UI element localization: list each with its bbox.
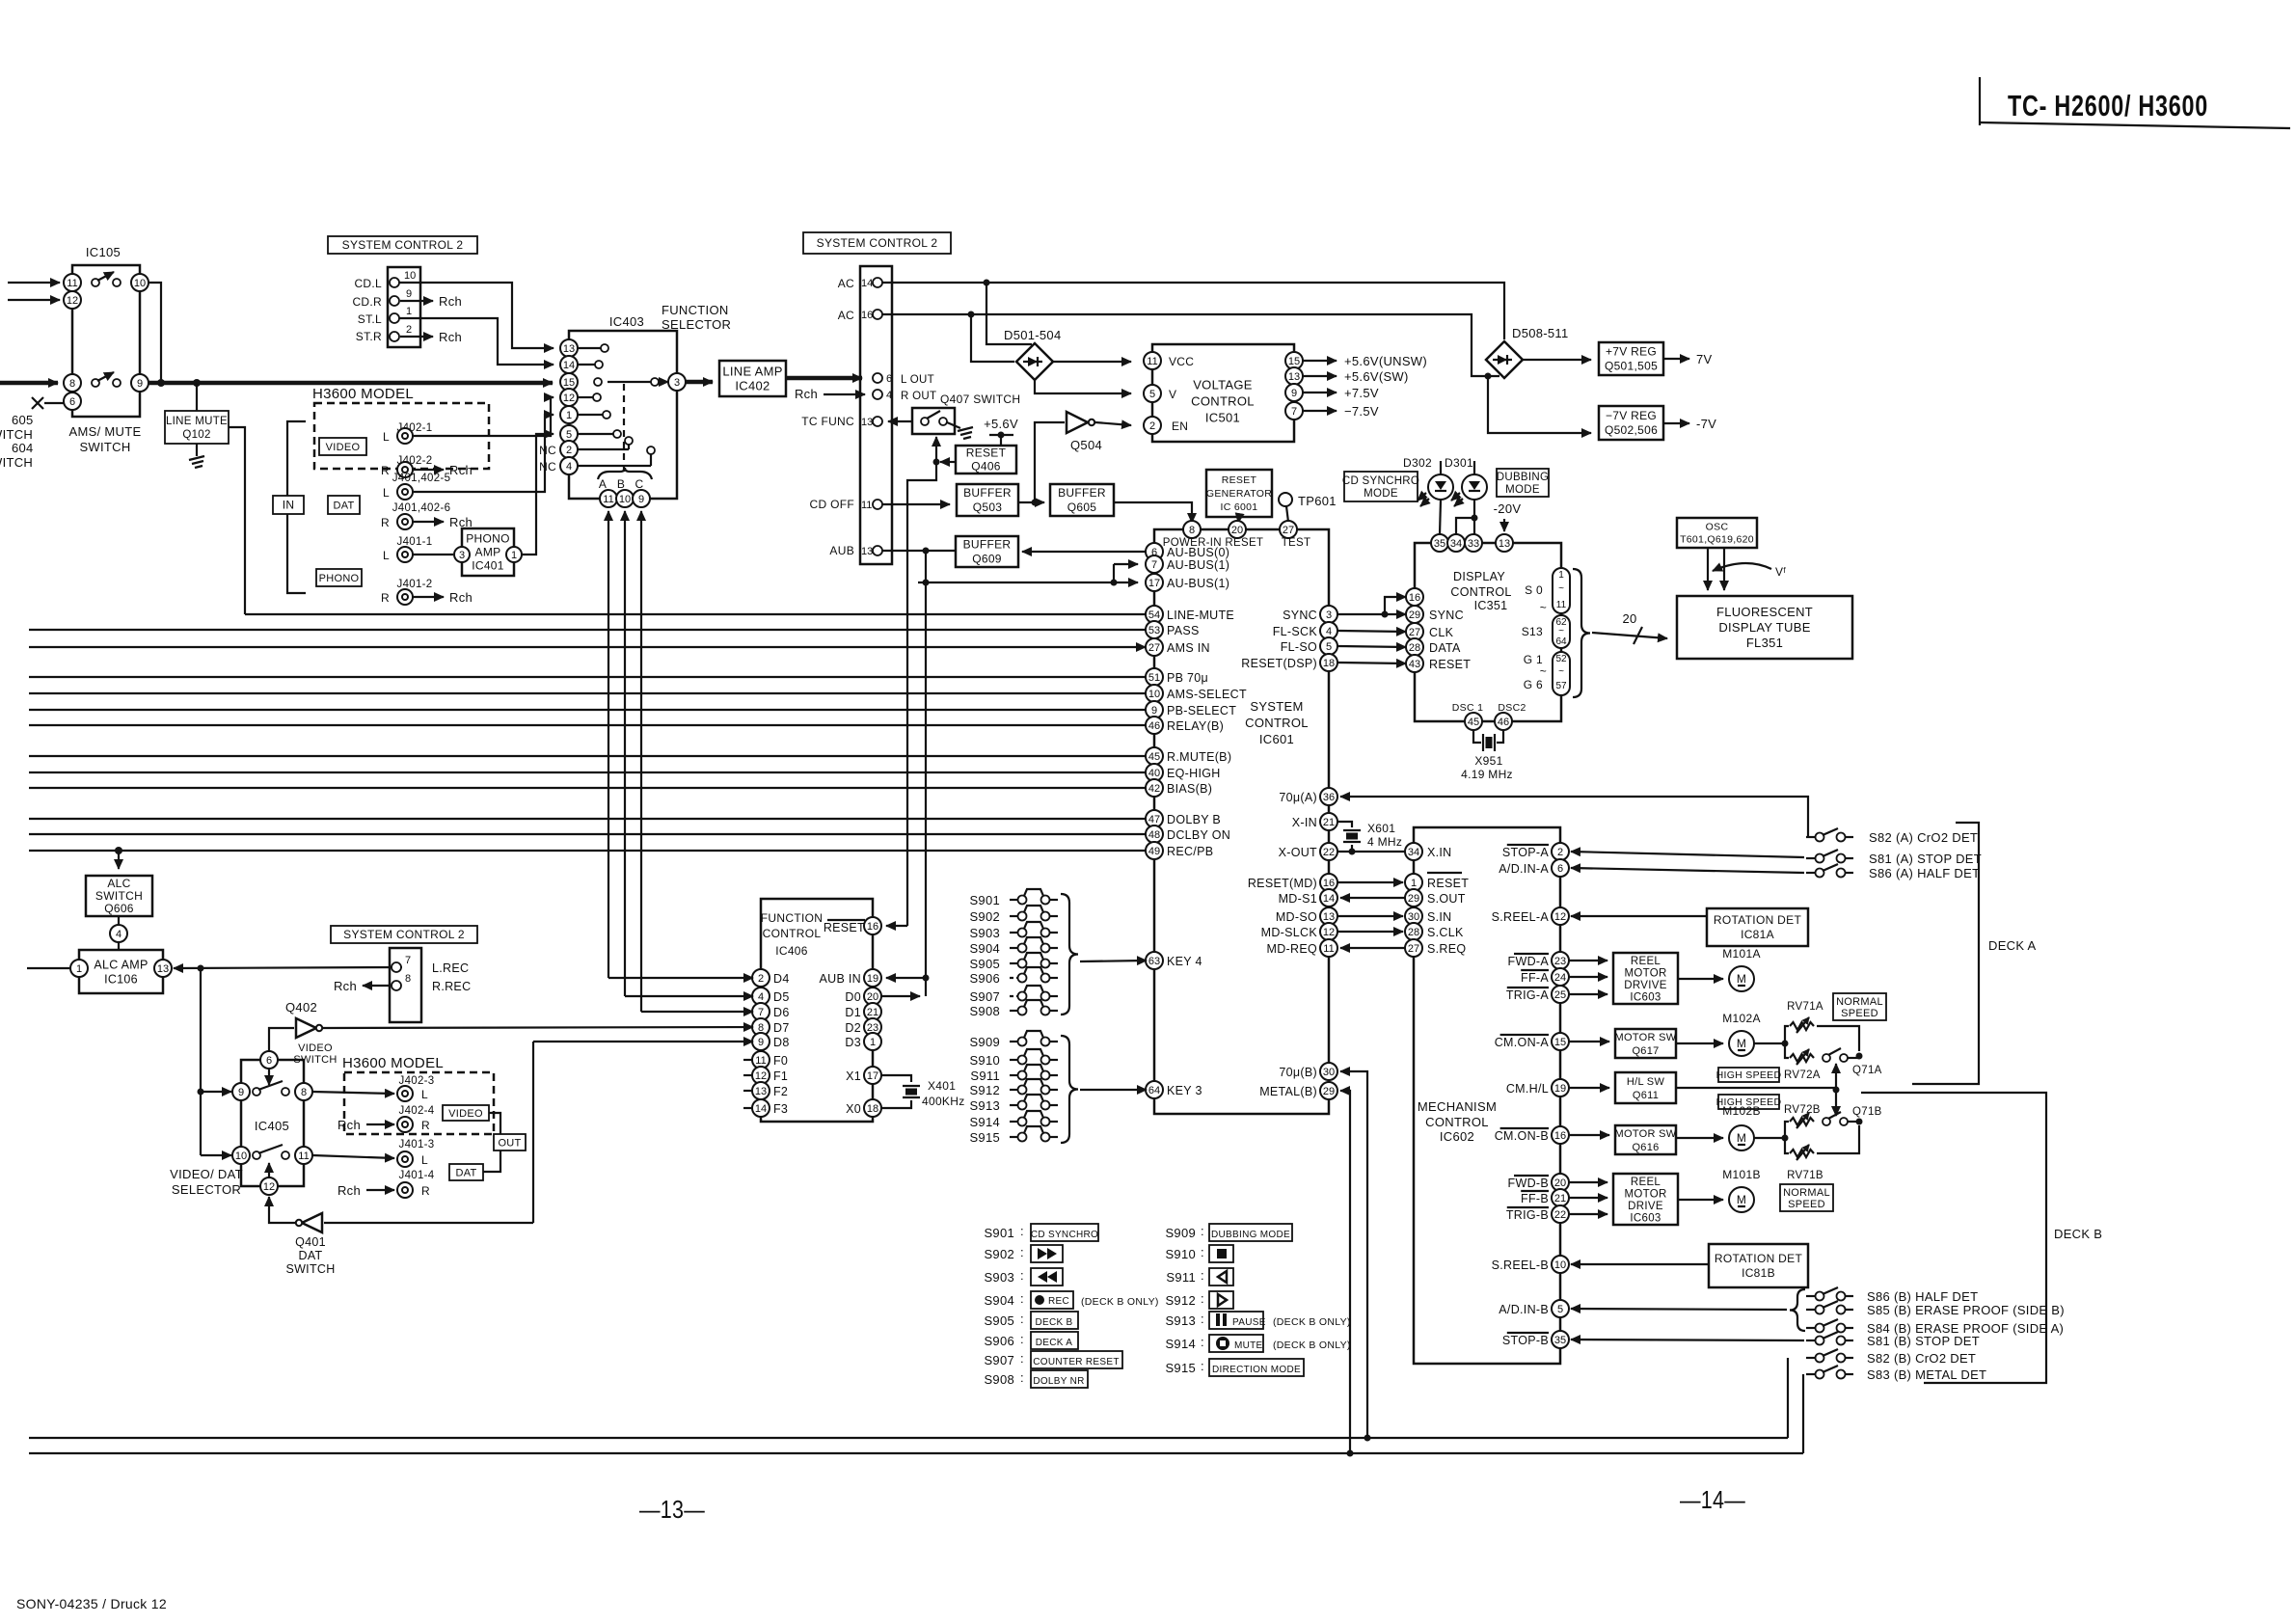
svg-text:VIDEO/ DAT: VIDEO/ DAT [170, 1167, 243, 1181]
wire SYNC branch to 16 [1385, 597, 1406, 614]
svg-text:NC: NC [539, 460, 556, 474]
IC601 pin 42 BIAS(B) [1146, 779, 1212, 797]
svg-text:FL-SO: FL-SO [1281, 640, 1317, 654]
svg-text:Q617: Q617 [1632, 1045, 1659, 1057]
svg-text:35: 35 [1434, 538, 1445, 550]
wire KEY4 [1080, 961, 1147, 961]
wire STOP-A from S81A [1571, 852, 1804, 857]
svg-text:X401: X401 [928, 1079, 956, 1093]
svg-text:1: 1 [76, 963, 82, 975]
svg-text:29: 29 [1408, 893, 1419, 905]
svg-text:S904: S904 [969, 941, 1000, 956]
svg-text:MODE: MODE [1364, 488, 1398, 500]
switch S83(B) [1806, 1366, 1986, 1382]
svg-text::: : [1201, 1224, 1204, 1238]
svg-text:IN: IN [283, 499, 295, 512]
IC403 pin 9 [633, 490, 650, 507]
svg-text:PB 70μ: PB 70μ [1167, 671, 1208, 685]
wire J401,402-5 to IC403 pin 1 [413, 415, 554, 492]
connector pin 11 CD OFF [810, 498, 882, 511]
svg-text:1: 1 [1411, 878, 1417, 889]
svg-text:S.REQ: S.REQ [1427, 942, 1466, 956]
svg-text:S905: S905 [984, 1313, 1014, 1328]
wire S83B drop [1802, 1374, 1804, 1453]
svg-text:M102B: M102B [1722, 1104, 1761, 1118]
svg-text:L OUT: L OUT [901, 374, 934, 386]
svg-text:-7V: -7V [1696, 417, 1716, 431]
wire IC6001 to pin 20 [1238, 517, 1239, 523]
legend S911 [1166, 1268, 1233, 1286]
svg-text:70μ(B): 70μ(B) [1279, 1066, 1317, 1079]
svg-text:27: 27 [1409, 627, 1420, 638]
svg-text:REC: REC [1048, 1296, 1069, 1307]
svg-text:9: 9 [1291, 388, 1297, 399]
svg-text:CD.L: CD.L [354, 277, 382, 290]
wire CD.L to IC403 pin 13 [399, 283, 554, 348]
svg-text:16: 16 [861, 310, 873, 321]
svg-text:D508-511: D508-511 [1512, 326, 1569, 340]
svg-text:EQ-HIGH: EQ-HIGH [1167, 767, 1221, 780]
svg-text:D4: D4 [773, 972, 790, 986]
IC406 pin 20 D0 [845, 988, 881, 1005]
wire S82B drop [1787, 1358, 1789, 1438]
IC403 pin 14 [560, 356, 603, 373]
svg-text::: : [1020, 1312, 1024, 1326]
svg-text:Rch: Rch [334, 979, 357, 993]
wire into IC105 pin 11 [8, 282, 60, 284]
svg-text:11: 11 [1556, 600, 1567, 610]
wire CM.H/L [1569, 1087, 1609, 1089]
label AMS/MUTE SWITCH [69, 424, 142, 454]
switch Q71B [1823, 1106, 1882, 1125]
svg-text:FL351: FL351 [1746, 636, 1783, 650]
svg-text:AUB: AUB [829, 544, 854, 557]
svg-text:DIRECTION MODE: DIRECTION MODE [1212, 1365, 1301, 1375]
wire ALC pin13 to connector [174, 965, 402, 972]
wire J402-1 to IC403 pin 12 [413, 397, 554, 436]
svg-text:Q501,505: Q501,505 [1605, 360, 1658, 373]
switch S901 [969, 889, 1058, 907]
svg-text:HIGH SPEED: HIGH SPEED [1716, 1069, 1782, 1081]
svg-text:11: 11 [861, 500, 872, 511]
legend S909 [1165, 1224, 1292, 1241]
svg-text:T601,Q619,620: T601,Q619,620 [1680, 534, 1754, 546]
switch S908 [969, 1000, 1058, 1018]
svg-text:1: 1 [406, 306, 412, 317]
IC601 pin 4 FL-SCK [1273, 622, 1337, 639]
IC601 pin 8 POWER-IN [1183, 521, 1201, 538]
svg-text:4: 4 [116, 929, 122, 940]
IC601 pin 9 PB-SELECT [1146, 701, 1236, 718]
svg-text:CM.ON-B: CM.ON-B [1495, 1129, 1549, 1143]
wire MD-REQ from S.REQ [1340, 947, 1405, 949]
svg-text:11: 11 [67, 278, 77, 289]
svg-text:~: ~ [1558, 666, 1564, 677]
svg-text:9: 9 [758, 1037, 764, 1048]
svg-text:VIDEO: VIDEO [448, 1108, 483, 1120]
svg-text:20: 20 [1231, 525, 1243, 536]
svg-text:Vᶠ: Vᶠ [1775, 565, 1786, 579]
svg-text:17: 17 [867, 1070, 878, 1082]
wire thick audio bus to IC403 pin 15 [149, 379, 553, 387]
crystal X401 [881, 1075, 965, 1108]
IC406 pin 13 F2 [752, 1082, 788, 1099]
svg-text:FF-A: FF-A [1521, 971, 1549, 985]
IC406 pin 8 D7 [752, 1018, 790, 1036]
legend S915 [1165, 1359, 1304, 1376]
svg-text:34: 34 [1450, 538, 1462, 550]
svg-text:S.OUT: S.OUT [1427, 892, 1466, 906]
svg-text:604: 604 [12, 441, 34, 455]
svg-text:45: 45 [1148, 751, 1160, 763]
svg-text:64: 64 [1555, 636, 1567, 647]
svg-text:48: 48 [1148, 829, 1160, 841]
switch S84(B) [1806, 1319, 2064, 1336]
svg-text:M101B: M101B [1722, 1168, 1761, 1181]
wire D508 out to +7V REG [1523, 359, 1591, 361]
connector CN system control 2 left [352, 267, 420, 347]
legend S912 [1165, 1291, 1233, 1309]
wire -7.5V [1303, 404, 1379, 419]
svg-text:SYNC: SYNC [1429, 609, 1464, 622]
jack J401,402-6 [381, 502, 450, 529]
IC403 pin 5 [560, 425, 621, 443]
wire CM.ON-B [1569, 1134, 1609, 1136]
motor switch Q616 [1615, 1125, 1677, 1154]
svg-text:DAT: DAT [333, 500, 354, 511]
svg-text:ROTATION DET: ROTATION DET [1714, 913, 1802, 927]
svg-text:S86 (B) HALF DET: S86 (B) HALF DET [1867, 1289, 1978, 1304]
svg-text:M102A: M102A [1722, 1012, 1761, 1025]
IC351 pin 43 RESET [1406, 655, 1471, 672]
wire 20-line bus to FL351 [1592, 611, 1667, 644]
svg-text:-20V: -20V [1494, 501, 1522, 516]
svg-text:SWITCH: SWITCH [285, 1262, 335, 1276]
legend S907 [984, 1351, 1122, 1368]
svg-text:16: 16 [1323, 878, 1335, 889]
IC601 pin 6 AU-BUS(0) [1146, 543, 1229, 560]
svg-text::: : [1020, 1332, 1024, 1346]
svg-text:8: 8 [405, 973, 411, 985]
svg-text:F3: F3 [773, 1102, 788, 1116]
svg-text:30: 30 [1323, 1067, 1335, 1078]
svg-text:BUFFER: BUFFER [963, 486, 1012, 500]
wire bus line 11 y849 [29, 818, 1146, 820]
IC351 stadium pins 52-57 [1553, 652, 1570, 695]
wire RESET 18-43 [1337, 663, 1406, 663]
jack J401-4 [397, 1170, 435, 1198]
svg-text:SYSTEM: SYSTEM [1250, 699, 1303, 714]
svg-text:10: 10 [404, 270, 416, 282]
svg-text:~: ~ [1540, 601, 1547, 614]
IC601 pin 3 SYNC [1283, 606, 1337, 623]
supply -20V [1494, 501, 1522, 531]
svg-text:9: 9 [638, 494, 644, 505]
svg-text:13: 13 [1323, 911, 1335, 923]
switch S910 [969, 1049, 1058, 1068]
h/l switch Q611 [1615, 1072, 1676, 1103]
IC403 box [569, 331, 677, 499]
wire AC16 drop to D501 [971, 314, 1014, 362]
svg-text:DRIVE: DRIVE [1628, 1201, 1663, 1212]
wire C line [641, 511, 753, 1012]
wire 7V out [1663, 352, 1713, 366]
wire Q406 to Q407 [933, 437, 957, 466]
svg-text:MOTOR SW: MOTOR SW [1615, 1128, 1677, 1140]
svg-text:DSC 1: DSC 1 [1452, 702, 1483, 714]
IC602 pin 25 TRIG-A [1506, 986, 1569, 1003]
svg-text:43: 43 [1409, 659, 1420, 670]
svg-text:D1: D1 [845, 1006, 861, 1019]
svg-text:TEST: TEST [1282, 537, 1311, 549]
svg-text:RESET: RESET [824, 921, 865, 934]
voltage control IC501 [1144, 344, 1303, 442]
dashed box H3600 out jacks [344, 1072, 494, 1134]
svg-text:STOP-A: STOP-A [1502, 846, 1549, 859]
svg-text:12: 12 [1554, 911, 1566, 923]
svg-text:S13: S13 [1522, 625, 1543, 638]
svg-text:13: 13 [1288, 371, 1300, 383]
IC406 pin 21 D1 [845, 1003, 881, 1020]
IC403 pin 11 [600, 490, 617, 507]
svg-text:DAT: DAT [299, 1249, 323, 1262]
svg-text:D501-504: D501-504 [1004, 328, 1062, 342]
svg-text:4: 4 [1326, 626, 1332, 637]
svg-text:19: 19 [867, 973, 878, 985]
IC351 pin 27 CLK [1406, 623, 1454, 640]
svg-text:S909: S909 [969, 1035, 1000, 1049]
wire Rch to R OUT [795, 387, 865, 401]
IC601 pin 5 FL-SO [1281, 637, 1337, 655]
svg-text:7: 7 [1151, 559, 1157, 571]
wire bottom bus 1 [29, 1435, 1788, 1442]
svg-text:6: 6 [886, 373, 892, 385]
svg-text:15: 15 [1288, 356, 1300, 367]
svg-text:DISPLAY: DISPLAY [1453, 570, 1505, 583]
label DAT box (out) [449, 1164, 483, 1180]
svg-text:R: R [381, 464, 390, 477]
IC351 pin 34 [1447, 534, 1465, 552]
svg-text::: : [1020, 1370, 1024, 1385]
IC601 pin 14 MD-S1 [1279, 889, 1337, 907]
svg-text:20: 20 [1554, 1177, 1566, 1189]
svg-text:20: 20 [1622, 611, 1636, 626]
svg-text:L.REC: L.REC [432, 961, 469, 975]
svg-text:PHONO: PHONO [466, 532, 510, 546]
svg-text:SPEED: SPEED [1788, 1199, 1825, 1210]
wire Q503 to Q605 [1018, 500, 1044, 506]
svg-text:S907: S907 [984, 1353, 1014, 1367]
svg-text:S911: S911 [1166, 1270, 1196, 1285]
IC602 pin 28 S.CLK [1405, 923, 1464, 940]
label 604 switch [0, 441, 34, 470]
svg-text:12: 12 [1323, 927, 1335, 938]
legend S902 [984, 1245, 1063, 1262]
svg-text:S909: S909 [1165, 1226, 1196, 1240]
svg-text:R: R [421, 1119, 430, 1132]
svg-text:R: R [381, 591, 390, 605]
svg-text:R: R [421, 1184, 430, 1198]
svg-text:13: 13 [861, 417, 873, 428]
wire FF-B [1569, 1197, 1607, 1199]
svg-text:AU-BUS(0): AU-BUS(0) [1167, 546, 1229, 559]
brace KEY3 switches [1061, 1036, 1078, 1143]
wire Q611 out [1676, 1087, 1836, 1089]
svg-text:CD SYNCHRO: CD SYNCHRO [1342, 475, 1419, 487]
IC351 pin 35 [1431, 534, 1448, 552]
wire D8 from selector [324, 1042, 753, 1223]
IC601 pin 64 KEY 3 [1146, 1081, 1202, 1098]
svg-text:SYSTEM CONTROL 2: SYSTEM CONTROL 2 [817, 236, 938, 250]
switch S81(A) [1806, 850, 1982, 866]
wire into ALC pin1 [27, 967, 69, 969]
svg-text:X951: X951 [1474, 754, 1502, 768]
switch S82(B) [1806, 1349, 1976, 1366]
svg-text:M: M [1737, 1193, 1746, 1206]
IC601 pin 47 DOLBY B [1146, 810, 1221, 827]
svg-text:16: 16 [1554, 1130, 1566, 1142]
svg-text:40: 40 [1148, 768, 1160, 779]
svg-text:14: 14 [861, 278, 873, 289]
svg-text:RESET(MD): RESET(MD) [1248, 877, 1317, 890]
svg-text:IC603: IC603 [1630, 1212, 1661, 1224]
switch S913 [969, 1095, 1058, 1113]
function control IC406 box [761, 899, 873, 1122]
svg-text:S83 (B) METAL DET: S83 (B) METAL DET [1867, 1367, 1986, 1382]
svg-text:Q611: Q611 [1633, 1090, 1659, 1101]
svg-text:Q606: Q606 [104, 902, 134, 915]
IC601 pin 30 70μ(B) [1279, 1063, 1337, 1080]
svg-text:AU-BUS(1): AU-BUS(1) [1167, 558, 1229, 572]
svg-text:VIDEO: VIDEO [298, 1042, 333, 1054]
label SYSTEM CONTROL 2 (left) [328, 236, 477, 254]
wire D501 out to IC501 VCC [1053, 361, 1131, 363]
svg-text:14: 14 [563, 360, 575, 371]
svg-text:1: 1 [1558, 570, 1564, 581]
svg-text:METAL(B): METAL(B) [1259, 1085, 1317, 1098]
svg-text:CONTROL: CONTROL [763, 927, 822, 940]
svg-text:11: 11 [603, 494, 613, 505]
svg-text:4: 4 [886, 390, 892, 401]
label VIDEO box (out) [443, 1105, 489, 1121]
svg-text:S911: S911 [970, 1069, 1000, 1083]
legend S908 [984, 1370, 1088, 1388]
svg-text:CM.H/L: CM.H/L [1506, 1082, 1549, 1096]
reel motor drive A IC603 [1613, 953, 1678, 1004]
svg-text:S85 (B) ERASE PROOF (SIDE B): S85 (B) ERASE PROOF (SIDE B) [1867, 1303, 2065, 1317]
IC403 pin 2 NC [539, 437, 633, 458]
wire thick audio in to pin 8 [0, 381, 58, 386]
svg-text:4: 4 [758, 991, 764, 1003]
page number 14 [1680, 1485, 1745, 1514]
wire +5.6V(SW) [1303, 369, 1409, 384]
svg-text:AMP: AMP [475, 546, 501, 559]
svg-text:X.IN: X.IN [1427, 846, 1452, 859]
IC406 pin 7 D6 [752, 1003, 790, 1020]
legend S904 [984, 1291, 1158, 1309]
phono amp IC401 [454, 528, 522, 576]
svg-text:13: 13 [563, 343, 575, 355]
IC406 pin 19 AUB IN [820, 969, 881, 987]
svg-text:Rch: Rch [439, 294, 462, 309]
svg-text:19: 19 [1554, 1083, 1566, 1095]
svg-text:12: 12 [755, 1070, 767, 1082]
svg-text:S915: S915 [1165, 1361, 1196, 1375]
wire ST.R to Rch [400, 330, 462, 344]
svg-text:13: 13 [861, 546, 873, 557]
wire Q71A-Q71B link [1833, 1064, 1840, 1116]
svg-text:(DECK B ONLY): (DECK B ONLY) [1273, 1316, 1351, 1328]
wire SYNC 3-29 [1337, 611, 1406, 618]
stub F1 [743, 1074, 752, 1076]
stub F3 [743, 1107, 752, 1109]
svg-text:SYSTEM CONTROL 2: SYSTEM CONTROL 2 [343, 928, 465, 941]
wire A/D.IN-B [1571, 1309, 1787, 1310]
IC406 pin 4 D5 [752, 988, 790, 1005]
svg-text:IC 6001: IC 6001 [1221, 501, 1258, 513]
wire TRIG-B [1569, 1213, 1607, 1215]
svg-text:21: 21 [1323, 817, 1335, 828]
svg-text:7: 7 [1291, 406, 1297, 418]
deck B bracket [1861, 1093, 2102, 1383]
svg-text:H/L SW: H/L SW [1627, 1076, 1665, 1088]
wire bus line 2 y653 [29, 629, 1146, 631]
svg-text:25: 25 [1554, 989, 1566, 1001]
svg-text::: : [1020, 1291, 1024, 1306]
svg-text:MOTOR SW: MOTOR SW [1615, 1032, 1677, 1043]
svg-text:S906: S906 [984, 1334, 1014, 1348]
legend S905 [984, 1312, 1078, 1329]
label CD SYNCHRO MODE [1342, 472, 1419, 501]
svg-text::: : [1020, 1245, 1024, 1259]
svg-text:5: 5 [1149, 389, 1155, 400]
inverter Q401 [285, 1213, 335, 1276]
connector pin AC 14 [838, 277, 882, 290]
svg-text:S.IN: S.IN [1427, 910, 1452, 924]
IC351 pin 28 DATA [1406, 638, 1461, 656]
ground below Q102 [189, 456, 204, 460]
IC602 pin 30 S.IN [1405, 907, 1452, 925]
wire S83B underline [1924, 1382, 1989, 1384]
svg-text:J401,402-6: J401,402-6 [392, 502, 451, 514]
motor switch Q617 [1615, 1029, 1677, 1058]
wire thick LINE AMP to L OUT [786, 376, 862, 381]
svg-text:IC81A: IC81A [1741, 928, 1774, 941]
label NORMAL SPEED A [1833, 993, 1886, 1020]
wire AUB line [882, 548, 956, 555]
svg-text:CLK: CLK [1429, 626, 1454, 639]
svg-text:400KHz: 400KHz [922, 1095, 965, 1108]
svg-text:16: 16 [1409, 592, 1420, 604]
wire IC405 pin6 to Q402 [269, 1028, 294, 1051]
svg-text:5: 5 [1557, 1304, 1563, 1315]
svg-text:FWD-B: FWD-B [1508, 1177, 1549, 1190]
svg-text:Q71B: Q71B [1852, 1106, 1882, 1118]
IC602 pin 12 S.REEL-A [1492, 907, 1569, 925]
switch S906 [969, 967, 1058, 986]
wire DATA 5-28 [1337, 646, 1406, 647]
svg-text:RV72B: RV72B [1784, 1104, 1821, 1116]
wire AC14 [882, 280, 1504, 340]
crystal X951 [1461, 730, 1513, 781]
svg-text:L: L [383, 549, 390, 562]
svg-text:M: M [1737, 972, 1746, 986]
svg-text:OSC: OSC [1706, 522, 1729, 533]
svg-text:S.REEL-B: S.REEL-B [1492, 1259, 1549, 1272]
svg-text:S81 (B) STOP DET: S81 (B) STOP DET [1867, 1334, 1980, 1348]
IC602 pin 29 S.OUT [1405, 889, 1466, 907]
svg-text:~: ~ [1540, 664, 1547, 678]
